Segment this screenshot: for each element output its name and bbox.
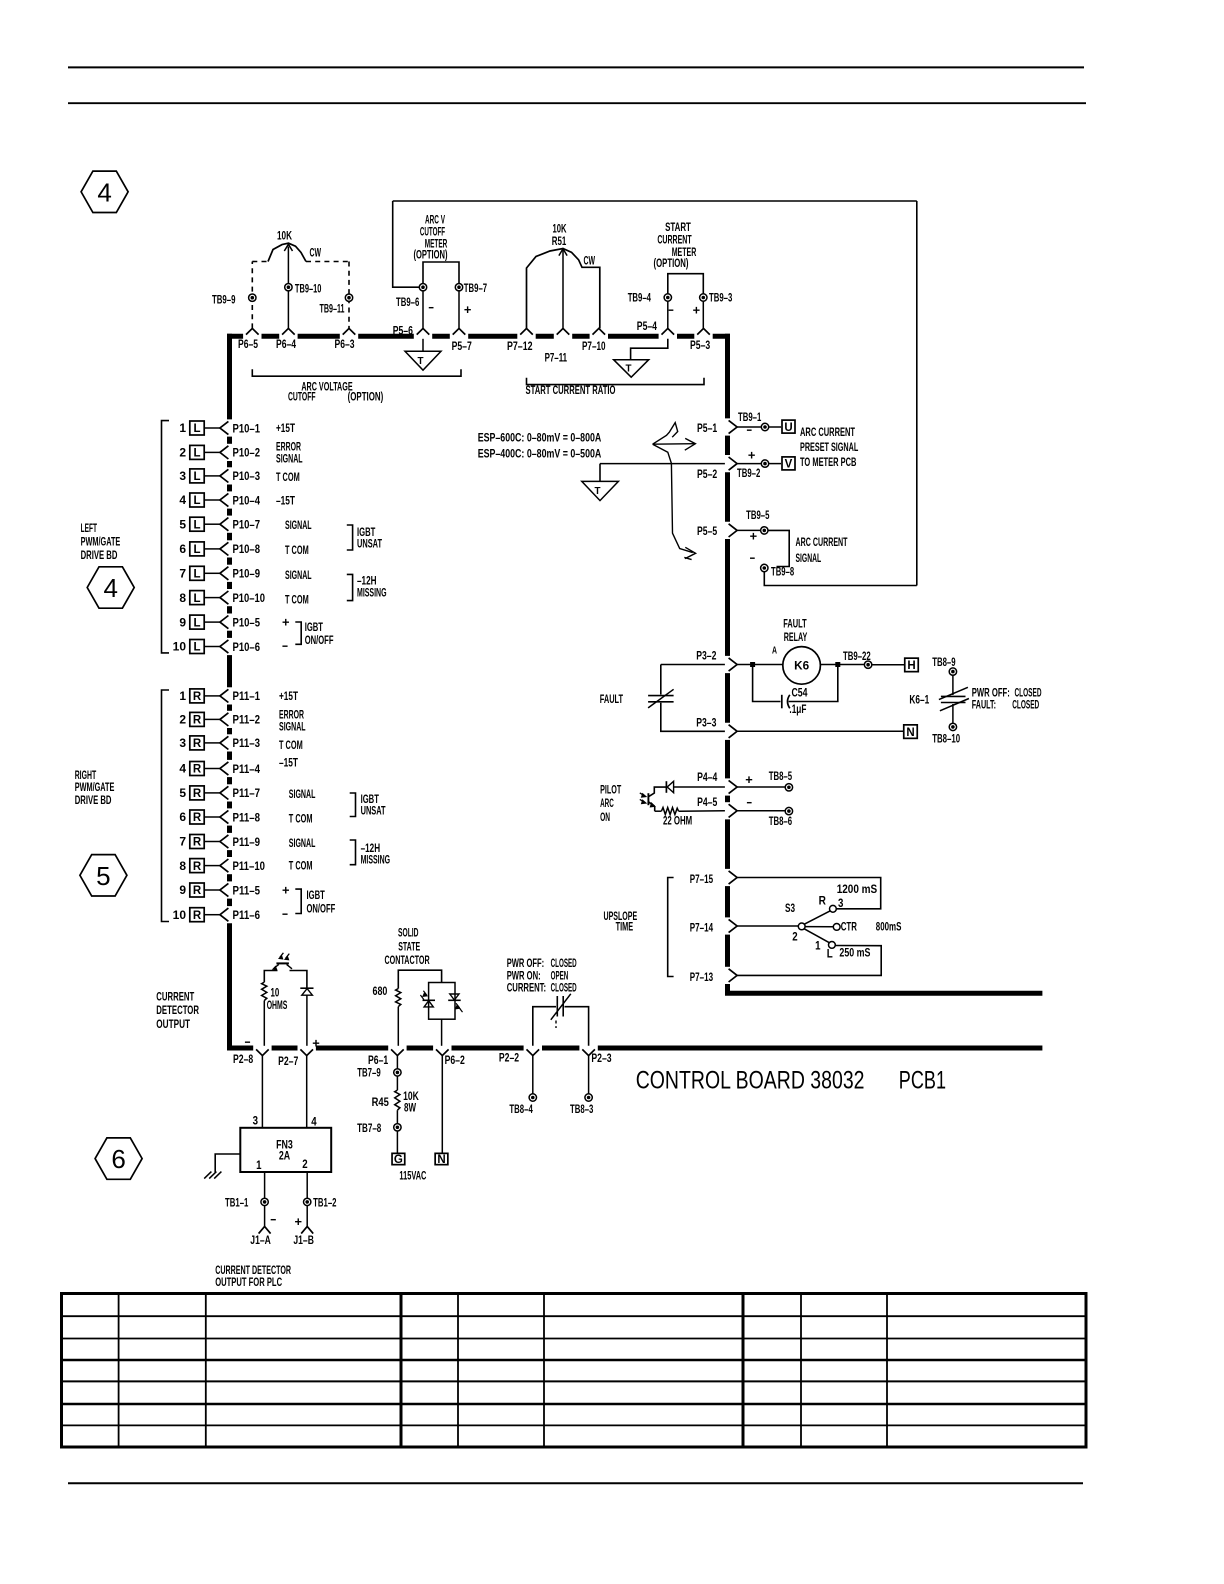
bracket IGBT UNSAT (P11)	[350, 793, 356, 817]
svg-text:R: R	[193, 885, 202, 897]
svg-text:P11–4: P11–4	[233, 762, 261, 776]
svg-text:IGBT: IGBT	[305, 620, 324, 634]
pin P6-2	[436, 1049, 465, 1066]
capacitor C54 symbol	[782, 695, 790, 709]
box N (115vac)	[435, 1153, 448, 1166]
fault contact symbol	[648, 689, 674, 708]
junction dot left of K6	[751, 663, 755, 667]
svg-text:R: R	[193, 861, 202, 873]
svg-text:P10–3: P10–3	[233, 469, 261, 483]
pin P2-8	[233, 1049, 269, 1066]
svg-text:CW: CW	[310, 246, 322, 260]
svg-text:P6–5: P6–5	[238, 337, 258, 351]
triac right diode	[448, 994, 462, 1012]
svg-text:R: R	[193, 788, 202, 800]
box G	[392, 1153, 405, 1166]
svg-text:CTR: CTR	[841, 920, 857, 934]
label RIGHT PWM/GATE DRIVE BD	[75, 768, 115, 807]
svg-text:−: −	[245, 1035, 251, 1050]
svg-text:T COM: T COM	[279, 738, 303, 752]
wire 680 to bus	[397, 1007, 399, 1046]
opto light arrows current detector	[279, 953, 290, 960]
wire P4-4 to TB8-5	[737, 786, 785, 788]
svg-text:CURRENT: CURRENT	[156, 989, 194, 1003]
svg-text:9: 9	[179, 883, 186, 897]
svg-text:TB9–3: TB9–3	[709, 291, 733, 305]
svg-text:P6–3: P6–3	[335, 337, 355, 351]
svg-text:SIGNAL: SIGNAL	[276, 452, 303, 466]
contact K6-1	[939, 668, 969, 731]
wire TB9-4 to P5-4	[667, 301, 669, 328]
svg-text:G: G	[394, 1154, 403, 1166]
arc current signal bracket	[768, 530, 789, 566]
label FAULT RELAY	[783, 616, 807, 644]
bracket arc voltage cutoff	[252, 369, 461, 376]
svg-text:SIGNAL: SIGNAL	[285, 568, 312, 582]
svg-text:4: 4	[179, 762, 186, 776]
pot R51 wiper wire	[562, 251, 564, 329]
svg-text:P10–1: P10–1	[233, 421, 261, 435]
wire P2-3 to TB8-3	[588, 1056, 590, 1094]
wire dashed left leg P6-5 to pot	[251, 262, 253, 329]
connector pin P10-9	[179, 566, 260, 580]
svg-text:+: +	[750, 529, 758, 544]
svg-text:P2–2: P2–2	[499, 1051, 519, 1065]
box V	[782, 457, 795, 471]
svg-text:T COM: T COM	[289, 858, 313, 872]
svg-text:–15T: –15T	[279, 756, 298, 770]
svg-text:8W: 8W	[404, 1101, 416, 1115]
wire P3-2 to K6	[737, 664, 783, 666]
label CURRENT DETECTOR OUTPUT	[156, 989, 199, 1030]
box U	[782, 420, 795, 434]
potentiometer R51 body	[527, 249, 600, 329]
resistor 22 OHM	[661, 808, 678, 815]
pin P2-7	[278, 1049, 313, 1068]
terminal TB9-6	[396, 284, 427, 310]
svg-text:−: −	[270, 1212, 276, 1227]
svg-text:SIGNAL: SIGNAL	[289, 787, 316, 801]
wire P7-15 branch	[737, 878, 881, 909]
label IGBT UNSAT (P10)	[357, 525, 382, 551]
svg-text:SIGNAL: SIGNAL	[289, 836, 316, 850]
wire resistor to P4-5	[679, 810, 725, 812]
svg-text:7: 7	[179, 835, 186, 849]
svg-text:T COM: T COM	[285, 543, 309, 557]
svg-text:4: 4	[103, 573, 117, 603]
pot 10K wiper arrow	[284, 244, 292, 251]
fuse block FN3	[240, 1128, 331, 1172]
svg-text:P5–1: P5–1	[697, 421, 717, 435]
svg-text:TB7–8: TB7–8	[357, 1121, 381, 1135]
switch blade to CTR	[805, 926, 833, 928]
wire dashed top left	[252, 261, 268, 263]
connector pin P11-8	[179, 810, 260, 824]
terminal TB9-4	[628, 291, 672, 305]
svg-text:P11–10: P11–10	[233, 859, 266, 873]
svg-text:P5–3: P5–3	[690, 338, 710, 352]
svg-text:DETECTOR: DETECTOR	[156, 1003, 199, 1017]
svg-text:–15T: –15T	[276, 493, 295, 507]
triac box	[429, 983, 455, 1020]
label ESP ratings	[478, 430, 602, 460]
label START CURRENT METER (OPTION)	[654, 220, 697, 270]
ground triangle T under P5-4	[614, 339, 668, 377]
svg-text:DRIVE BD: DRIVE BD	[75, 793, 112, 807]
svg-text:TB9–9: TB9–9	[212, 292, 236, 306]
label -12H MISSING (P11)	[361, 841, 391, 867]
connector J1-B	[293, 1206, 314, 1248]
svg-text:5: 5	[179, 786, 186, 800]
connector pin P11-9	[179, 835, 260, 849]
svg-text:P7–14: P7–14	[690, 920, 714, 934]
wire FN3 pin1 to TB1-1	[264, 1172, 266, 1198]
wire P5-5 to TB9-5	[737, 529, 761, 531]
svg-text:H: H	[907, 660, 915, 672]
connector pin P11-1	[179, 689, 260, 703]
svg-text:5: 5	[96, 861, 110, 891]
svg-text:8: 8	[179, 591, 186, 605]
svg-text:R: R	[193, 691, 202, 703]
bracket -12H MISSING (P11)	[350, 840, 356, 865]
pin P5-3	[690, 328, 710, 352]
svg-text:3: 3	[838, 896, 844, 910]
terminal TB8-5	[769, 769, 793, 791]
wire diode to opto collector	[649, 787, 667, 796]
svg-text:R: R	[193, 910, 202, 922]
svg-text:R: R	[193, 715, 202, 727]
svg-text:R: R	[193, 764, 202, 776]
svg-text:TB9–5: TB9–5	[746, 508, 770, 522]
connector J1-A	[250, 1206, 271, 1248]
wire TB9-1 to U box	[769, 426, 781, 428]
svg-text:6: 6	[111, 1144, 125, 1174]
sketch jumper arrow figure	[653, 423, 696, 560]
svg-text:P7–13: P7–13	[690, 970, 714, 984]
svg-text:2: 2	[792, 929, 798, 943]
svg-text:P10–2: P10–2	[233, 446, 261, 460]
wire TB7-8 to G box	[396, 1131, 398, 1153]
svg-text:TB9–11: TB9–11	[320, 302, 345, 316]
wire TB9-2 to V box	[769, 463, 781, 465]
svg-text:P7–11: P7–11	[545, 351, 568, 365]
svg-text:L: L	[193, 617, 200, 629]
bracket P10 group	[162, 421, 170, 653]
wire 10 ohms to bus	[263, 1001, 265, 1046]
connector pin P10-5	[179, 615, 260, 629]
svg-text:+15T: +15T	[279, 689, 298, 703]
bracket IGBT UNSAT (P10)	[347, 525, 353, 550]
svg-text:6: 6	[179, 810, 186, 824]
zone marker hexagon 5	[80, 855, 127, 896]
svg-text:P11–2: P11–2	[233, 713, 261, 727]
ground stub FN3	[215, 1154, 240, 1172]
wire P2-7 to FN3	[306, 1056, 308, 1128]
svg-text:ON/OFF: ON/OFF	[307, 902, 336, 916]
pin P5-2	[697, 457, 737, 481]
svg-text:ON: ON	[600, 810, 610, 824]
svg-text:L: L	[193, 519, 200, 531]
svg-text:R: R	[193, 837, 202, 849]
svg-text:10K: 10K	[277, 229, 292, 243]
label -12H MISSING (P10)	[357, 574, 387, 600]
terminal TB9-3	[700, 291, 733, 305]
svg-text:−: −	[282, 907, 288, 922]
pin P5-7	[452, 328, 472, 353]
pin P5-5	[697, 524, 737, 538]
relay coil K6	[783, 647, 821, 685]
wire triac to bus	[441, 1019, 443, 1046]
svg-text:P2–3: P2–3	[591, 1051, 611, 1065]
opto light arrows pilot	[640, 793, 646, 804]
pin P4-5	[697, 795, 737, 817]
svg-text:MISSING: MISSING	[361, 853, 391, 867]
svg-text:5: 5	[179, 517, 186, 531]
svg-text:TB9–22: TB9–22	[843, 649, 871, 663]
svg-text:P10–9: P10–9	[233, 567, 261, 581]
wire dashed right leg to P6-3	[348, 262, 350, 329]
meter loop wire top	[393, 200, 917, 202]
connector pin P10-1	[179, 421, 260, 435]
svg-text:R: R	[819, 894, 827, 908]
svg-text:L: L	[193, 569, 200, 581]
svg-text:P5–2: P5–2	[697, 467, 717, 481]
ground triangle T under P5-6	[405, 339, 441, 370]
svg-text:+: +	[295, 1214, 303, 1229]
svg-text:680: 680	[373, 984, 388, 998]
pot R51 wiper arrow	[559, 249, 567, 256]
connector pin P10-2	[179, 445, 260, 459]
svg-text:−: −	[282, 639, 288, 654]
terminal TB1-2	[304, 1196, 337, 1210]
svg-text:J1–A: J1–A	[250, 1233, 271, 1247]
svg-text:FAULT:: FAULT:	[972, 697, 996, 711]
connector pin P10-4	[179, 493, 260, 507]
wire P2-2 to TB8-4	[532, 1056, 534, 1094]
terminal TB8-4	[509, 1094, 536, 1116]
svg-text:IGBT: IGBT	[307, 888, 326, 902]
svg-text:2: 2	[179, 713, 186, 727]
svg-text:T: T	[626, 363, 633, 375]
svg-text:A: A	[772, 645, 777, 657]
wire TB9-3 to P5-3	[702, 301, 704, 328]
connector pin P10-10	[179, 591, 265, 605]
terminal TB9-11	[320, 294, 353, 316]
svg-text:P5–6: P5–6	[393, 323, 413, 337]
label LEFT PWM/GATE DRIVE BD	[81, 521, 121, 562]
svg-text:800mS: 800mS	[876, 920, 902, 934]
svg-text:J1–B: J1–B	[293, 1233, 314, 1247]
svg-text:TB7–9: TB7–9	[357, 1065, 381, 1079]
contact wires P2-2 P2-3	[533, 1007, 556, 1046]
box H	[905, 658, 919, 672]
pin P3-2	[696, 649, 737, 672]
svg-text:TIME: TIME	[616, 920, 634, 934]
ground triangle T at ESP wire	[582, 464, 619, 501]
start meter bracket	[668, 274, 704, 294]
svg-text:TB1–1: TB1–1	[225, 1196, 249, 1210]
label SOLID STATE CONTACTOR	[385, 926, 430, 968]
svg-text:OUTPUT: OUTPUT	[156, 1017, 190, 1031]
header rule bottom	[68, 102, 1086, 104]
svg-text:STATE: STATE	[398, 940, 420, 954]
svg-text:+: +	[312, 1036, 320, 1051]
svg-text:P10–10: P10–10	[233, 591, 266, 605]
svg-text:P10–6: P10–6	[233, 640, 261, 654]
svg-text:N: N	[437, 1154, 445, 1166]
svg-text:K6–1: K6–1	[909, 693, 929, 707]
svg-text:4: 4	[97, 177, 111, 207]
svg-text:P10–7: P10–7	[233, 518, 261, 532]
svg-text:T COM: T COM	[289, 811, 313, 825]
svg-text:CUTOFF: CUTOFF	[288, 390, 316, 404]
svg-text:10: 10	[173, 908, 187, 922]
svg-text:P11–5: P11–5	[233, 883, 261, 897]
terminal TB9-7	[455, 281, 487, 295]
svg-text:+15T: +15T	[276, 421, 295, 435]
opto transistor pilot	[648, 793, 655, 811]
svg-text:ESP–400C: 0–80mV = 0–500A: ESP–400C: 0–80mV = 0–500A	[478, 446, 602, 460]
pin P7-15	[690, 871, 737, 886]
svg-text:SIGNAL: SIGNAL	[796, 551, 822, 565]
resistor R45	[395, 1090, 400, 1110]
svg-text:(OPTION): (OPTION)	[413, 248, 447, 262]
svg-text:115VAC: 115VAC	[399, 1169, 426, 1183]
label ERROR SIGNAL (P11)	[279, 708, 306, 734]
label PWR OFF / FAULT state	[972, 685, 1042, 711]
label CURRENT DETECTOR OUTPUT FOR PLC	[215, 1263, 291, 1289]
svg-text:R: R	[193, 812, 202, 824]
connector pin P11-4	[179, 762, 260, 776]
svg-text:S3: S3	[785, 901, 795, 915]
svg-text:RELAY: RELAY	[784, 630, 808, 644]
meter loop wire left (to TB9-6)	[393, 201, 420, 287]
svg-text:N: N	[906, 727, 914, 739]
svg-text:U: U	[784, 422, 792, 434]
svg-text:+: +	[282, 883, 290, 898]
svg-text:2: 2	[302, 1157, 308, 1171]
connector pin P11-6	[173, 908, 261, 922]
svg-text:TB8–4: TB8–4	[509, 1102, 533, 1116]
wire P6-1 to TB7-9	[396, 1056, 398, 1069]
svg-text:ARC CURRENT: ARC CURRENT	[796, 535, 848, 549]
svg-text:L: L	[827, 947, 833, 961]
zone marker hexagon 6	[95, 1138, 142, 1179]
pin P7-11	[545, 328, 570, 364]
terminal TB9-2	[737, 460, 769, 480]
svg-text:CW: CW	[584, 253, 596, 267]
connector pin P10-7	[179, 517, 260, 531]
connector pin P11-5	[179, 883, 260, 897]
footer rule	[68, 1482, 1083, 1484]
svg-text:CONTROL BOARD 38032: CONTROL BOARD 38032	[636, 1066, 865, 1094]
wire long to P5-2	[600, 463, 725, 465]
label ARC V CUTOFF METER (OPTION)	[413, 213, 447, 262]
switch contact 1	[829, 942, 836, 949]
pin P5-4	[637, 319, 674, 335]
potentiometer 10K body	[268, 243, 306, 261]
label PILOT ARC ON	[600, 782, 621, 824]
svg-text:R45: R45	[372, 1095, 389, 1109]
svg-text:2: 2	[179, 446, 186, 460]
zone marker hexagon 4 (top)	[81, 171, 128, 212]
ground symbol	[204, 1172, 221, 1179]
svg-text:K6: K6	[794, 661, 809, 673]
pin P5-6	[393, 323, 430, 337]
wire P4-5 to TB8-6	[737, 810, 785, 812]
svg-text:P7–10: P7–10	[582, 339, 606, 353]
svg-text:CONTACTOR: CONTACTOR	[385, 953, 430, 967]
svg-text:DRIVE BD: DRIVE BD	[81, 548, 118, 562]
svg-text:T: T	[595, 485, 602, 497]
svg-text:4: 4	[179, 493, 186, 507]
svg-text:9: 9	[179, 615, 186, 629]
wire P5-2 to TB9-2	[737, 463, 761, 465]
svg-text:P11–6: P11–6	[233, 908, 261, 922]
upslope bracket	[668, 878, 674, 977]
svg-text:1: 1	[815, 939, 821, 953]
svg-text:(OPTION): (OPTION)	[654, 256, 689, 270]
contactor top wire	[398, 970, 441, 988]
svg-text:+: +	[693, 303, 701, 318]
svg-text:T COM: T COM	[276, 470, 300, 484]
wire R45 to TB7-8	[396, 1110, 398, 1123]
svg-text:UNSAT: UNSAT	[361, 804, 386, 818]
box N (fault)	[904, 725, 918, 739]
svg-text:P4–4: P4–4	[697, 770, 717, 784]
switch blade to 1	[804, 929, 829, 943]
svg-text:PCB1: PCB1	[899, 1066, 946, 1094]
svg-text:V: V	[785, 459, 793, 471]
svg-text:3: 3	[179, 469, 186, 483]
svg-text:TB8–10: TB8–10	[932, 732, 960, 746]
svg-text:TB8–9: TB8–9	[932, 655, 956, 669]
svg-text:TB9–4: TB9–4	[628, 291, 652, 305]
connector pin P11-10	[179, 859, 265, 873]
svg-text:FAULT: FAULT	[600, 692, 624, 706]
pin P6-3	[335, 328, 356, 350]
svg-text:TO METER PCB: TO METER PCB	[800, 455, 857, 469]
svg-text:MISSING: MISSING	[357, 586, 387, 600]
svg-text:TB9–10: TB9–10	[295, 281, 322, 295]
svg-text:R: R	[193, 738, 202, 750]
svg-text:TB9–8: TB9–8	[771, 565, 794, 579]
terminal TB9-10	[285, 281, 322, 295]
svg-text:C54: C54	[792, 685, 808, 699]
svg-text:−: −	[668, 303, 674, 318]
svg-text:4: 4	[311, 1114, 317, 1128]
bracket IGBT ON/OFF (P11)	[295, 889, 301, 913]
diode current detector	[300, 988, 313, 995]
connector pin P11-7	[179, 786, 260, 800]
svg-text:P3–3: P3–3	[696, 715, 716, 729]
wire P5-1 to TB9-1	[737, 426, 761, 428]
label 10K 8W	[403, 1089, 419, 1115]
label CONTROL BOARD 38032 PCB1	[636, 1066, 946, 1094]
wire P6-2 to N box	[441, 1056, 443, 1154]
svg-text:P7–12: P7–12	[507, 339, 533, 353]
svg-text:L: L	[193, 448, 200, 460]
terminal TB9-8	[761, 564, 795, 578]
svg-text:ARC CURRENT: ARC CURRENT	[800, 425, 855, 439]
svg-text:FAULT: FAULT	[783, 616, 807, 630]
svg-text:8: 8	[179, 859, 186, 873]
svg-text:TB8–5: TB8–5	[769, 769, 793, 783]
wire TB9-6 to P5-6	[422, 291, 424, 329]
svg-text:1: 1	[256, 1158, 262, 1172]
svg-text:R51: R51	[552, 234, 567, 248]
svg-text:TB8–3: TB8–3	[570, 1102, 594, 1116]
